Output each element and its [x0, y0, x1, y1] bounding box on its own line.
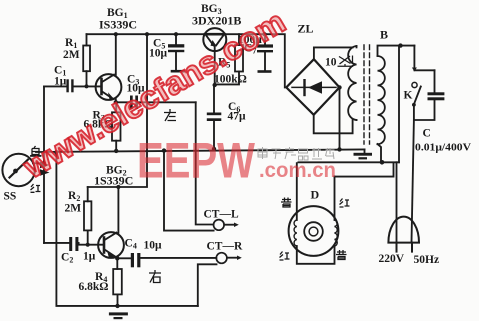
- svg-text:2M: 2M: [65, 203, 82, 215]
- svg-text:C: C: [423, 128, 431, 140]
- svg-text:220V: 220V: [379, 253, 405, 265]
- svg-text:1μ: 1μ: [83, 251, 96, 263]
- svg-text:CT—L: CT—L: [204, 209, 239, 221]
- svg-text:10μ: 10μ: [149, 48, 168, 60]
- svg-text:2M: 2M: [63, 49, 80, 61]
- svg-text:IS339C: IS339C: [99, 18, 137, 32]
- svg-text:SS: SS: [4, 191, 17, 203]
- svg-text:C4: C4: [125, 238, 137, 251]
- svg-text:R2: R2: [68, 190, 80, 203]
- svg-text:K: K: [404, 90, 413, 102]
- svg-text:1S339C: 1S339C: [94, 174, 133, 188]
- svg-text:10μ: 10μ: [144, 240, 163, 252]
- svg-text:47μ: 47μ: [228, 111, 247, 123]
- svg-text:1μ: 1μ: [54, 76, 67, 88]
- svg-text:.com.cn: .com.cn: [259, 159, 336, 182]
- svg-text:ZL: ZL: [298, 22, 314, 36]
- svg-text:CT—R: CT—R: [207, 241, 243, 253]
- svg-text:0.01μ/400V: 0.01μ/400V: [415, 143, 472, 154]
- svg-text:50Hz: 50Hz: [414, 254, 440, 266]
- svg-text:EEPW: EEPW: [137, 133, 256, 189]
- svg-text:D: D: [311, 188, 320, 202]
- svg-text:10: 10: [325, 57, 337, 69]
- svg-text:C2: C2: [61, 252, 73, 265]
- svg-text:B: B: [380, 28, 388, 42]
- svg-text:6.8kΩ: 6.8kΩ: [79, 281, 109, 293]
